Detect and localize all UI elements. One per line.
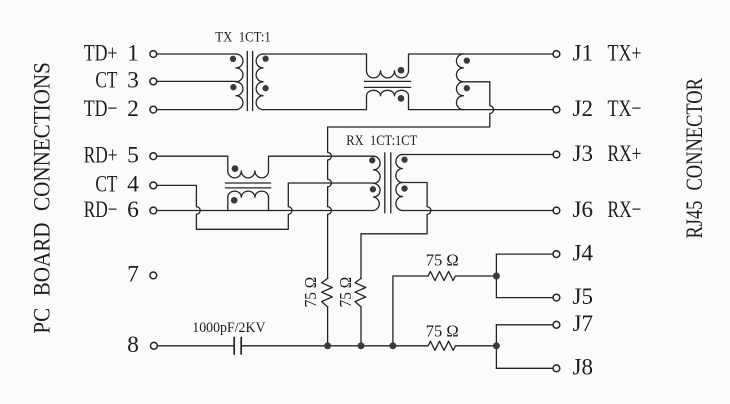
choke L2 bottom winding	[228, 191, 269, 197]
polarity dot choke L1 top	[398, 67, 405, 74]
svg-text:1000pF/2KV: 1000pF/2KV	[192, 320, 266, 336]
wire pin3 to TX primary center tap	[157, 80, 236, 82]
svg-text:1: 1	[127, 40, 139, 66]
wire to J8	[496, 367, 552, 369]
transformer T1 core	[247, 52, 252, 111]
terminal J7	[553, 321, 560, 328]
svg-text:CT: CT	[95, 68, 117, 94]
choke L2 bottom winding legs	[228, 197, 269, 210]
terminal pin 4	[150, 182, 157, 189]
svg-text:75 Ω: 75 Ω	[426, 250, 459, 269]
capacitor C1 1000pF/2KV plates	[234, 338, 241, 354]
wire to J5	[496, 297, 552, 299]
junction dot riser/bus	[389, 342, 396, 349]
svg-text:CT: CT	[95, 172, 117, 198]
junction dot R3/bracket J4J5	[493, 273, 500, 280]
terminal pin 3	[150, 78, 157, 85]
wire riser from bus up to R3	[393, 276, 428, 346]
transformer T2 RX primary winding	[374, 156, 381, 210]
terminal J8	[553, 365, 560, 372]
svg-text:RX 1CT:1CT: RX 1CT:1CT	[346, 133, 417, 149]
transformer T1 TX secondary winding	[256, 54, 263, 110]
wire pin2 to TX primary bottom	[157, 109, 236, 111]
terminal pin 1	[150, 51, 157, 58]
terminal pin 6	[150, 207, 157, 214]
wire R1 bottom to bus	[327, 307, 329, 346]
terminal pin 7	[150, 272, 157, 279]
terminal J5	[553, 294, 560, 301]
resistor R3 75ohm horizontal and wire to J4/J5 bracket	[428, 271, 496, 280]
svg-text:TX+: TX+	[608, 41, 642, 67]
svg-text:J2: J2	[573, 96, 594, 122]
bracket J7/J8	[495, 325, 497, 369]
choke L1 core	[365, 81, 411, 87]
polarity dot RX primary upper	[369, 157, 375, 163]
svg-text:J6: J6	[573, 197, 594, 223]
polarity dot choke L2 top	[232, 165, 239, 172]
polarity dot RX secondary upper	[401, 157, 407, 163]
wire capacitor to bus with resistor R4 75ohm horizontal, to J7/J8 bracket	[242, 341, 497, 350]
svg-text:TX 1CT:1: TX 1CT:1	[215, 29, 270, 45]
svg-text:75 Ω: 75 Ω	[426, 322, 459, 341]
transformer T1 TX primary winding	[236, 54, 243, 110]
terminal J2	[553, 106, 560, 113]
svg-text:PC BOARD CONNECTIONS: PC BOARD CONNECTIONS	[30, 62, 56, 334]
wire RX secondary top to J3	[403, 154, 553, 156]
svg-text:RD−: RD−	[84, 197, 118, 223]
wire pin1 to TX primary top	[157, 53, 236, 55]
wire pin4 CT down, under choke, up with hop, to RX primary center tap	[157, 183, 373, 229]
polarity dot TX primary upper	[230, 56, 236, 62]
svg-text:J4: J4	[573, 240, 594, 266]
terminal J3	[553, 151, 560, 158]
polarity dot RX secondary lower	[401, 185, 407, 191]
wire pin5 + choke L2 top winding + wire to RX primary top	[157, 156, 373, 178]
svg-text:75 Ω: 75 Ω	[301, 277, 320, 308]
transformer T2 core	[385, 153, 391, 213]
svg-text:75 Ω: 75 Ω	[336, 277, 355, 308]
wire pin6 to RX primary bottom	[157, 210, 373, 212]
svg-text:4: 4	[127, 172, 139, 198]
svg-text:7: 7	[127, 262, 139, 288]
polarity dot choke L2 bottom	[231, 197, 238, 204]
polarity dot autotransformer lower	[464, 85, 470, 91]
svg-text:TD+: TD+	[84, 40, 118, 66]
polarity dot RX primary lower	[370, 186, 376, 192]
polarity dot choke L1 bottom	[398, 95, 405, 102]
terminal J1	[553, 51, 560, 58]
wire coil center tap down to node, hop over J2 line, to TX termination drop	[328, 82, 494, 279]
svg-text:RD+: RD+	[84, 143, 118, 169]
junction dot R2/bus	[358, 342, 365, 349]
svg-text:RX−: RX−	[608, 197, 642, 223]
terminal pin 8	[151, 342, 158, 349]
svg-text:5: 5	[127, 143, 139, 169]
terminal J4	[553, 251, 560, 258]
choke L2 core	[226, 183, 271, 188]
svg-text:TD−: TD−	[84, 96, 118, 122]
polarity dot TX primary lower	[230, 84, 236, 90]
svg-text:J1: J1	[573, 41, 594, 67]
resistor R1 75ohm vertical	[322, 278, 333, 306]
polarity dot TX secondary lower	[262, 85, 268, 91]
terminal pin 5	[150, 153, 157, 160]
wire RX secondary bottom to J6	[403, 210, 553, 212]
polarity dot autotransformer upper	[464, 57, 470, 63]
svg-text:8: 8	[127, 332, 139, 358]
svg-text:J5: J5	[573, 284, 594, 310]
svg-text:J8: J8	[573, 355, 594, 381]
svg-text:J7: J7	[573, 311, 594, 337]
wire TX secondary bottom + choke L1 bottom winding + wire to J2	[263, 90, 552, 109]
junction dot R1/bus	[324, 342, 331, 349]
wire pin8 to capacitor C1	[158, 345, 234, 347]
svg-text:RJ45 CONNECTOR: RJ45 CONNECTOR	[682, 78, 708, 239]
terminal J6	[553, 207, 560, 214]
svg-text:TX−: TX−	[608, 96, 642, 122]
wire R2 bottom to bus	[360, 307, 362, 346]
svg-text:6: 6	[127, 197, 139, 223]
svg-text:3: 3	[127, 68, 139, 94]
svg-text:RX+: RX+	[608, 141, 642, 167]
transformer T2 RX secondary winding	[396, 155, 403, 211]
wire TX secondary top + choke L1 top winding + wire to J1	[263, 54, 552, 78]
svg-text:J3: J3	[573, 141, 594, 167]
wire to J4	[496, 253, 552, 255]
wire to J7	[496, 324, 552, 326]
resistor R2 75ohm vertical	[355, 278, 366, 306]
wire RX secondary center tap down with hop, left, down to R2	[361, 183, 431, 279]
svg-text:2: 2	[127, 96, 139, 122]
bracket J4/J5	[495, 254, 497, 298]
junction dot R4/bracket J7J8	[493, 342, 500, 349]
terminal pin 2	[150, 106, 157, 113]
polarity dot TX secondary upper	[262, 56, 268, 62]
autotransformer coil across J1-J2	[456, 54, 463, 110]
